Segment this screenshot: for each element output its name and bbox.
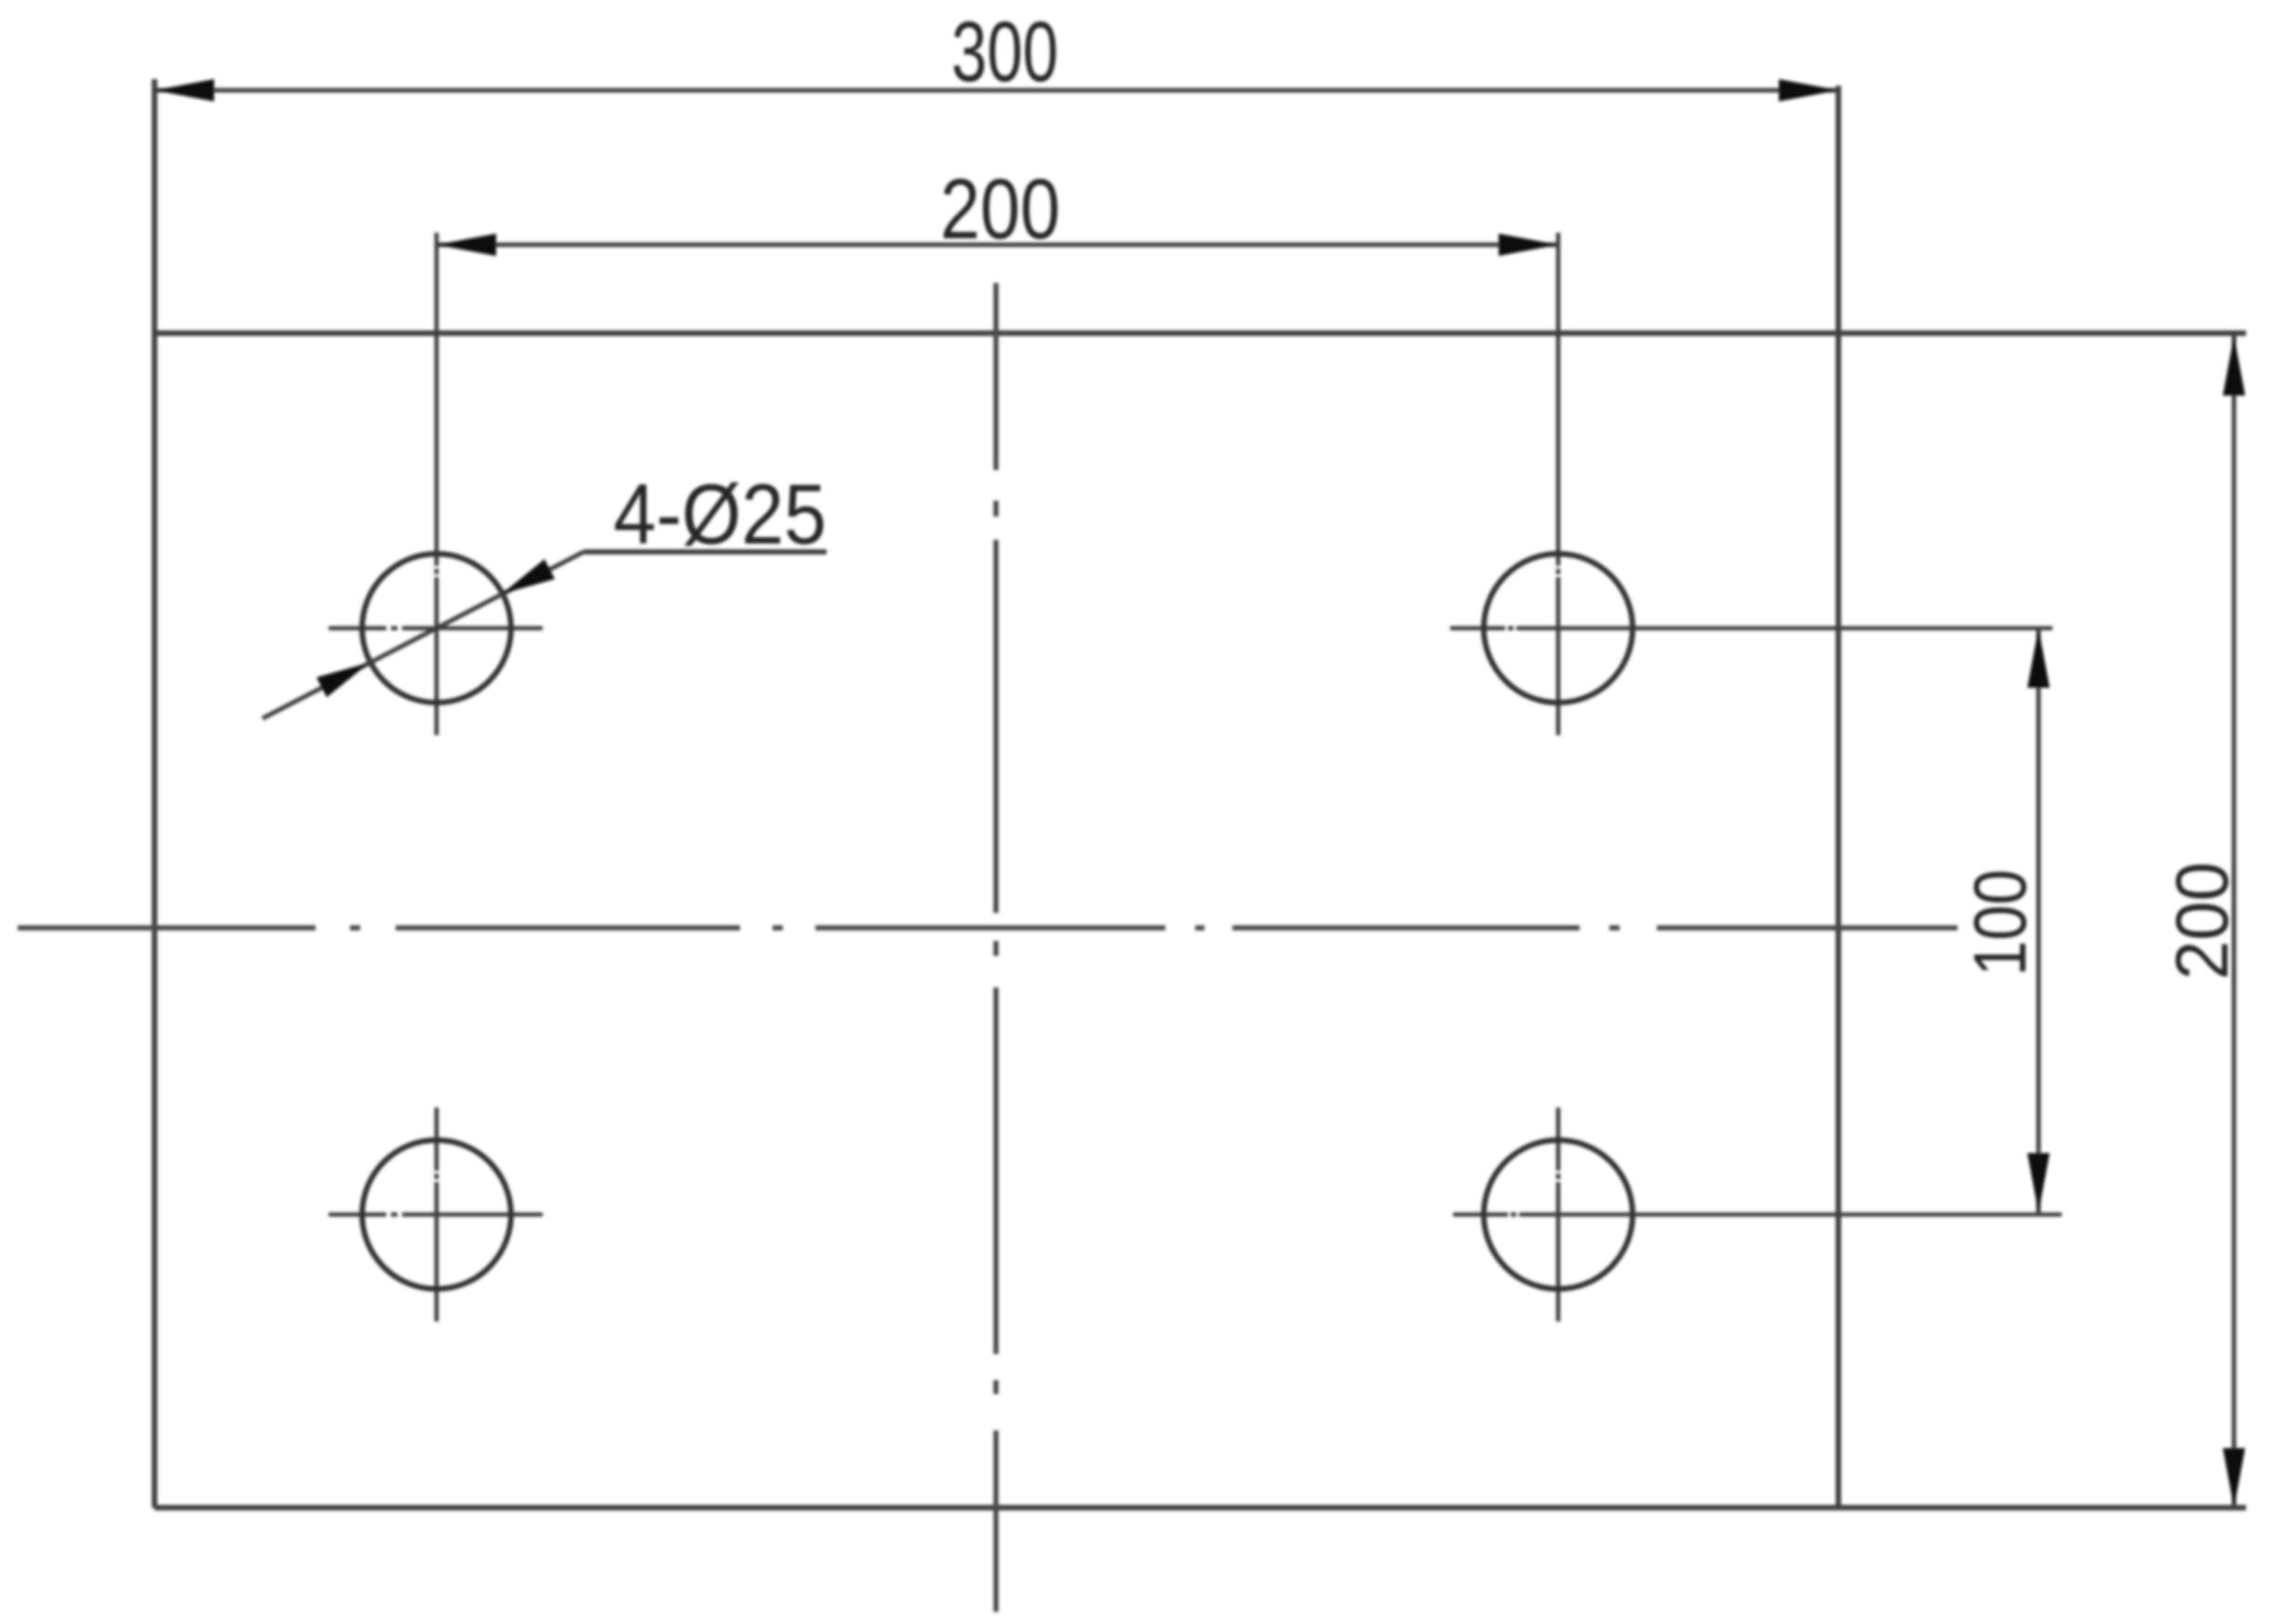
svg-text:100: 100 <box>1958 869 2041 976</box>
svg-text:300: 300 <box>951 5 1058 100</box>
svg-text:4-Ø25: 4-Ø25 <box>613 467 827 562</box>
svg-text:200: 200 <box>940 162 1060 257</box>
svg-text:200: 200 <box>2160 862 2243 980</box>
